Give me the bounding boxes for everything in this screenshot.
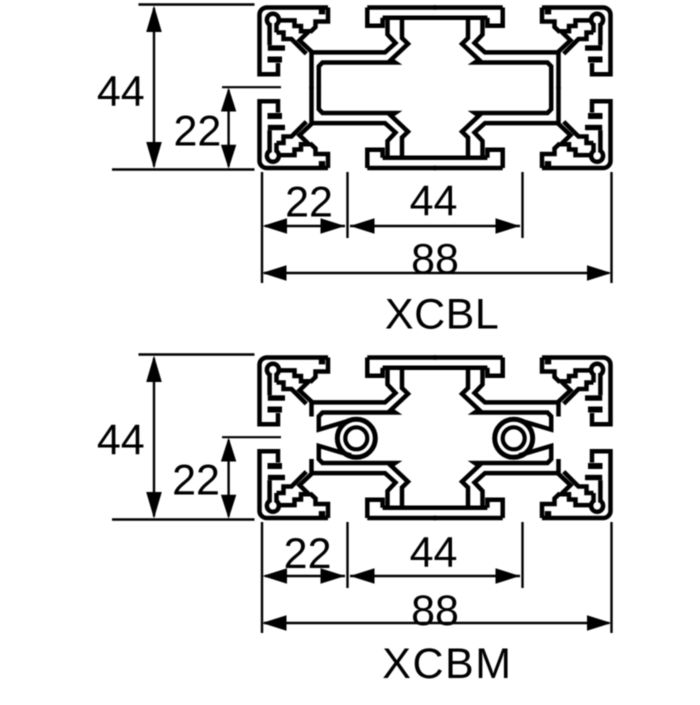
node boss ring right outer	[495, 419, 533, 457]
svg-text:44: 44	[410, 177, 458, 225]
svg-text:22: 22	[173, 108, 221, 156]
node boss ring left outer	[337, 419, 375, 457]
svg-text:88: 88	[411, 587, 459, 635]
svg-text:44: 44	[97, 416, 145, 464]
svg-text:XCBL: XCBL	[385, 290, 499, 338]
node boss hole left inner	[345, 427, 367, 449]
svg-text:88: 88	[411, 235, 459, 283]
wire ext line right vertical	[610, 172, 612, 283]
quadrant top-right	[434, 8, 611, 89]
dimension 44 horizontal	[350, 225, 520, 227]
svg-text:22: 22	[284, 530, 332, 578]
dimension 22 horizontal	[265, 225, 345, 227]
svg-text:44: 44	[97, 67, 145, 115]
svg-text:XCBM: XCBM	[382, 640, 512, 688]
dimensions XCBM (copy shifted)	[112, 355, 612, 634]
node boss hole right inner	[503, 427, 525, 449]
wire ext line top	[139, 3, 255, 5]
svg-text:44: 44	[410, 528, 458, 576]
quadrant bottom-left	[259, 87, 436, 168]
svg-text:22: 22	[285, 178, 333, 226]
wire ext line bottom	[112, 168, 255, 170]
dimension 44 vertical line	[153, 8, 155, 167]
wire ext line slot left vertical	[346, 172, 348, 238]
quadrant top-left	[259, 8, 436, 89]
quadrant bottom-right	[434, 87, 611, 168]
wire ext line slot center left	[222, 86, 281, 88]
dimension 88 horizontal	[264, 272, 609, 274]
wire ext line slot right vertical	[521, 172, 523, 238]
dimension 22 vertical line	[227, 90, 229, 167]
svg-text:22: 22	[172, 456, 220, 504]
wire ext line left vertical	[261, 172, 263, 283]
